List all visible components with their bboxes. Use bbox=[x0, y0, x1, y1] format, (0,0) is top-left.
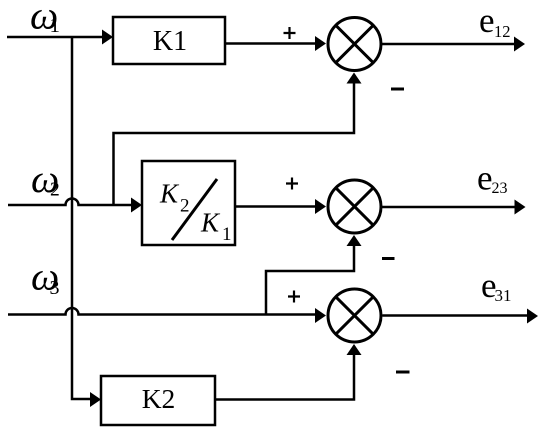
svg-text:12: 12 bbox=[494, 22, 511, 41]
svg-text:31: 31 bbox=[495, 286, 512, 305]
svg-text:K2: K2 bbox=[142, 383, 176, 414]
svg-text:3: 3 bbox=[50, 277, 60, 299]
svg-text:2: 2 bbox=[180, 196, 190, 217]
svg-text:K: K bbox=[200, 208, 221, 238]
svg-text:2: 2 bbox=[50, 180, 60, 201]
svg-text:1: 1 bbox=[50, 13, 61, 37]
svg-text:K: K bbox=[159, 179, 180, 209]
svg-text:e: e bbox=[477, 159, 493, 198]
svg-text:23: 23 bbox=[492, 180, 508, 197]
svg-text:K1: K1 bbox=[153, 26, 187, 57]
svg-text:e: e bbox=[479, 1, 495, 40]
svg-text:1: 1 bbox=[222, 224, 232, 245]
